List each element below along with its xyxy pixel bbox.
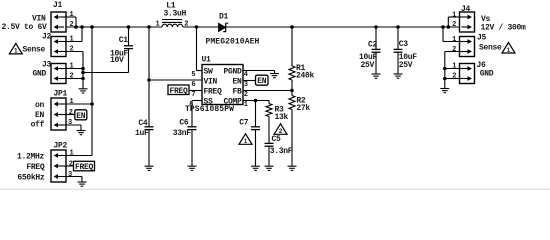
svg-text:8: 8 xyxy=(189,101,193,109)
connector J5 xyxy=(460,34,487,57)
pin 1 COMP xyxy=(223,97,247,109)
wire xyxy=(64,114,75,116)
ground xyxy=(77,131,86,135)
svg-text:PMEG2010AEH: PMEG2010AEH xyxy=(206,38,260,47)
ground xyxy=(288,166,297,170)
label xyxy=(1,15,47,32)
wire xyxy=(255,101,257,127)
wire xyxy=(268,101,270,104)
svg-text:25V: 25V xyxy=(399,61,413,70)
wire xyxy=(445,68,463,70)
svg-text:JP2: JP2 xyxy=(54,141,68,150)
wire xyxy=(243,80,256,82)
svg-text:EN: EN xyxy=(35,111,45,120)
pin 7 FREQ xyxy=(191,87,222,99)
svg-text:Sense: Sense xyxy=(479,44,502,53)
connector J1 xyxy=(51,1,66,32)
svg-text:1: 1 xyxy=(452,36,456,44)
capacitor C2 xyxy=(359,40,381,70)
svg-text:7: 7 xyxy=(191,91,195,99)
svg-text:JP1: JP1 xyxy=(54,89,68,98)
node xyxy=(90,25,94,29)
svg-text:J3: J3 xyxy=(42,60,52,69)
svg-text:240k: 240k xyxy=(296,71,315,80)
wire xyxy=(445,78,463,80)
svg-text:12V / 300m: 12V / 300m xyxy=(481,24,527,33)
svg-text:FREQ: FREQ xyxy=(204,87,223,96)
wire xyxy=(291,110,293,167)
svg-text:1: 1 xyxy=(70,98,74,106)
svg-text:U1: U1 xyxy=(202,56,212,65)
wire xyxy=(64,155,92,157)
pin 8 SS xyxy=(189,97,213,109)
node xyxy=(290,25,294,29)
svg-text:4: 4 xyxy=(244,71,248,79)
svg-text:3: 3 xyxy=(68,119,72,127)
ground xyxy=(270,74,279,78)
capacitor C3 xyxy=(394,40,418,70)
svg-text:C3: C3 xyxy=(399,40,409,49)
wire xyxy=(149,79,202,81)
note 1 xyxy=(239,134,252,145)
wire xyxy=(64,165,74,167)
node xyxy=(441,25,450,29)
svg-text:FREQ: FREQ xyxy=(169,87,188,96)
svg-text:1: 1 xyxy=(70,63,74,71)
svg-text:C2: C2 xyxy=(368,40,378,49)
svg-text:EN: EN xyxy=(257,77,267,86)
capacitor C5 xyxy=(265,135,293,156)
wire xyxy=(64,52,83,89)
svg-text:SW: SW xyxy=(204,67,214,76)
svg-text:1: 1 xyxy=(452,63,456,71)
svg-text:2: 2 xyxy=(452,73,456,81)
note 1 xyxy=(9,43,22,54)
node VIN xyxy=(74,25,84,29)
wire xyxy=(64,17,76,27)
pin numbers J3 xyxy=(70,63,74,81)
ground xyxy=(145,166,154,170)
svg-text:C7: C7 xyxy=(239,118,249,127)
svg-text:C1: C1 xyxy=(119,36,129,45)
net label FREQ xyxy=(168,85,189,96)
connector J3 xyxy=(42,60,66,83)
wire xyxy=(197,27,203,71)
capacitor C6 xyxy=(173,119,197,138)
node xyxy=(147,78,151,82)
diode D1 xyxy=(206,12,260,46)
capacitor C7 xyxy=(239,118,260,129)
svg-text:J4: J4 xyxy=(461,5,471,14)
pin 6 VIN xyxy=(191,77,217,89)
svg-text:J5: J5 xyxy=(477,34,487,43)
wire xyxy=(243,71,275,74)
svg-text:EN: EN xyxy=(76,112,86,121)
wire xyxy=(64,68,83,70)
ground xyxy=(78,182,87,186)
connector JP2 xyxy=(51,141,68,182)
pin numbers J5 xyxy=(452,36,456,54)
svg-text:J1: J1 xyxy=(53,1,63,10)
svg-text:J6: J6 xyxy=(477,61,487,70)
net label FREQ xyxy=(74,161,95,172)
label xyxy=(480,70,494,79)
svg-text:1uF: 1uF xyxy=(135,129,149,138)
pin numbers J4 xyxy=(452,11,456,29)
wire xyxy=(191,130,193,167)
wire xyxy=(91,27,93,156)
svg-text:2.5V to 6V: 2.5V to 6V xyxy=(1,23,47,32)
wire xyxy=(291,80,293,96)
svg-text:off: off xyxy=(31,121,45,130)
net label EN xyxy=(75,110,87,121)
svg-text:1.2MHz: 1.2MHz xyxy=(17,153,45,162)
ground xyxy=(265,166,274,170)
svg-text:VIN: VIN xyxy=(204,77,218,86)
wire xyxy=(375,27,377,74)
svg-text:GND: GND xyxy=(32,70,46,79)
svg-text:D1: D1 xyxy=(219,12,229,21)
pin 4 PGND xyxy=(223,67,247,79)
svg-text:2: 2 xyxy=(452,21,456,29)
wire xyxy=(268,117,270,144)
svg-text:650kHz: 650kHz xyxy=(17,174,45,183)
svg-text:2: 2 xyxy=(244,91,248,99)
connector J4 xyxy=(460,5,475,32)
pin numbers JP1 xyxy=(68,98,74,127)
svg-text:2: 2 xyxy=(69,109,73,117)
pin numbers J1 xyxy=(70,11,74,29)
ground xyxy=(251,166,260,170)
label xyxy=(22,46,45,55)
wire xyxy=(243,100,269,102)
node xyxy=(443,67,447,81)
svg-text:GND: GND xyxy=(480,70,494,79)
wire xyxy=(291,27,293,66)
svg-text:2: 2 xyxy=(452,46,456,54)
svg-text:27k: 27k xyxy=(296,104,310,113)
wire xyxy=(148,130,150,167)
svg-text:2: 2 xyxy=(70,73,74,81)
node SW xyxy=(195,25,199,29)
svg-text:C5: C5 xyxy=(272,135,282,144)
svg-text:C4: C4 xyxy=(138,119,148,128)
svg-text:C6: C6 xyxy=(179,119,189,128)
svg-text:COMP: COMP xyxy=(223,97,242,106)
node xyxy=(396,25,400,29)
pin 2 FB xyxy=(232,87,247,99)
connector JP1 xyxy=(51,89,68,130)
svg-text:10V: 10V xyxy=(110,56,124,65)
svg-text:33nF: 33nF xyxy=(173,129,192,138)
svg-text:on: on xyxy=(35,101,45,110)
svg-text:3.3nF: 3.3nF xyxy=(270,147,293,156)
node xyxy=(90,102,94,106)
svg-text:5: 5 xyxy=(191,71,195,79)
connector J2 xyxy=(42,32,66,56)
svg-text:3: 3 xyxy=(68,171,72,179)
svg-text:Sense: Sense xyxy=(22,46,45,55)
svg-text:1: 1 xyxy=(452,11,456,19)
label xyxy=(479,44,502,53)
wire xyxy=(64,27,82,42)
svg-text:EN: EN xyxy=(232,77,242,86)
capacitor C1 xyxy=(110,36,133,65)
wire xyxy=(148,27,150,127)
ground xyxy=(372,74,381,78)
svg-text:6: 6 xyxy=(191,81,195,89)
svg-text:13k: 13k xyxy=(275,113,289,122)
pin 3 EN xyxy=(232,77,247,89)
wire xyxy=(64,78,83,80)
pin numbers J2 xyxy=(70,36,74,54)
node GND-J3 xyxy=(81,67,85,81)
svg-text:1: 1 xyxy=(244,101,248,109)
note 2 xyxy=(274,124,287,135)
net label EN xyxy=(256,75,269,86)
wire xyxy=(443,27,463,42)
svg-text:1: 1 xyxy=(70,150,74,158)
node FB xyxy=(290,89,294,93)
ground xyxy=(440,89,449,93)
label xyxy=(32,70,46,79)
svg-text:1: 1 xyxy=(70,36,74,44)
wire xyxy=(83,72,129,74)
wire xyxy=(64,177,82,183)
svg-text:SS: SS xyxy=(204,97,214,106)
svg-text:Vs: Vs xyxy=(481,15,491,24)
pin 5 SW xyxy=(191,67,213,79)
svg-text:1: 1 xyxy=(156,21,160,29)
wire xyxy=(397,27,399,74)
inductor L1 xyxy=(156,2,189,29)
ground xyxy=(188,166,197,170)
wire xyxy=(66,26,460,28)
node xyxy=(374,25,378,29)
svg-text:FB: FB xyxy=(232,87,242,96)
svg-text:FREQ: FREQ xyxy=(26,163,45,172)
svg-text:2: 2 xyxy=(70,21,74,29)
ground xyxy=(394,74,403,78)
svg-text:2: 2 xyxy=(70,46,74,54)
svg-text:PGND: PGND xyxy=(223,67,242,76)
node xyxy=(147,25,151,29)
resistor R2 xyxy=(289,96,310,114)
resistor R3 xyxy=(266,104,289,123)
label xyxy=(481,15,527,33)
wire xyxy=(0,188,550,190)
pin numbers JP2 xyxy=(68,150,74,179)
wire xyxy=(268,146,270,166)
svg-text:3.3uH: 3.3uH xyxy=(164,10,187,19)
svg-text:2: 2 xyxy=(184,20,188,28)
capacitor C4 xyxy=(135,119,154,138)
svg-text:J2: J2 xyxy=(42,32,52,41)
wire xyxy=(128,27,130,73)
node COMP xyxy=(254,99,258,103)
pin numbers J6 xyxy=(452,63,456,81)
label xyxy=(17,153,45,183)
node xyxy=(127,25,131,29)
wire xyxy=(255,130,257,167)
svg-text:1: 1 xyxy=(70,11,74,19)
wire xyxy=(189,90,202,92)
wire xyxy=(243,90,292,92)
ground xyxy=(79,89,88,93)
svg-text:FREQ: FREQ xyxy=(75,163,94,172)
wire xyxy=(64,125,81,131)
resistor R1 xyxy=(289,64,315,80)
wire xyxy=(192,101,202,127)
wire xyxy=(64,103,92,105)
connector J6 xyxy=(460,61,487,84)
IC U1 TPS61085PW xyxy=(185,56,243,114)
wire xyxy=(445,52,463,89)
svg-text:25V: 25V xyxy=(360,61,374,70)
svg-text:3: 3 xyxy=(244,81,248,89)
label xyxy=(31,101,45,130)
svg-text:2: 2 xyxy=(69,160,73,168)
note 1 xyxy=(502,43,515,54)
wire xyxy=(448,17,463,27)
